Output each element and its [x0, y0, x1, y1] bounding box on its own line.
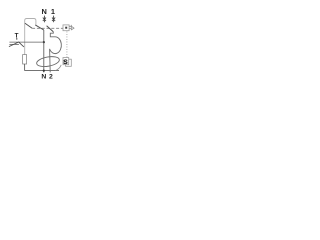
sensing relay shadow box — [66, 59, 72, 66]
mechanical linkage (dashed) — [32, 27, 63, 29]
svg-text:1: 1 — [51, 7, 55, 16]
toroid current transformer — [36, 55, 60, 68]
pole N switch blade — [35, 25, 44, 30]
pole 1/2 switch blade — [47, 26, 54, 32]
test contact blade (upper) — [25, 23, 32, 28]
node: test tap above toroid — [43, 41, 45, 43]
terminal N top (clamp symbol) — [43, 16, 46, 23]
pole N conductor wire — [43, 30, 45, 72]
svg-text:N: N — [42, 7, 47, 16]
trip latch box — [63, 25, 69, 31]
trip latch core — [65, 27, 67, 29]
test button fixed pad — [9, 43, 19, 45]
test button plunger stem — [16, 38, 18, 40]
test circuit frame (gray rounded hook from resistor up over to pole N fixed contact) — [25, 19, 36, 55]
node: test tap below toroid — [43, 70, 45, 72]
latch armature — [69, 25, 71, 30]
test resistor R — [23, 55, 27, 64]
pole 1/2 conductor with solenoid loop — [50, 32, 62, 73]
wire test button to pole N — [9, 41, 43, 43]
terminal 1 top (clamp symbol) — [52, 16, 55, 23]
sensing relay box S — [63, 58, 69, 65]
test button moving blade — [9, 42, 24, 47]
dotted trip wire — [66, 32, 68, 58]
wire resistor to lower tap — [25, 64, 59, 71]
svg-text:N: N — [41, 74, 46, 81]
sensing winding lead to test wire — [55, 65, 61, 71]
svg-text:2: 2 — [49, 74, 53, 81]
svg-text:S: S — [63, 59, 68, 66]
latch pawl — [72, 26, 74, 29]
